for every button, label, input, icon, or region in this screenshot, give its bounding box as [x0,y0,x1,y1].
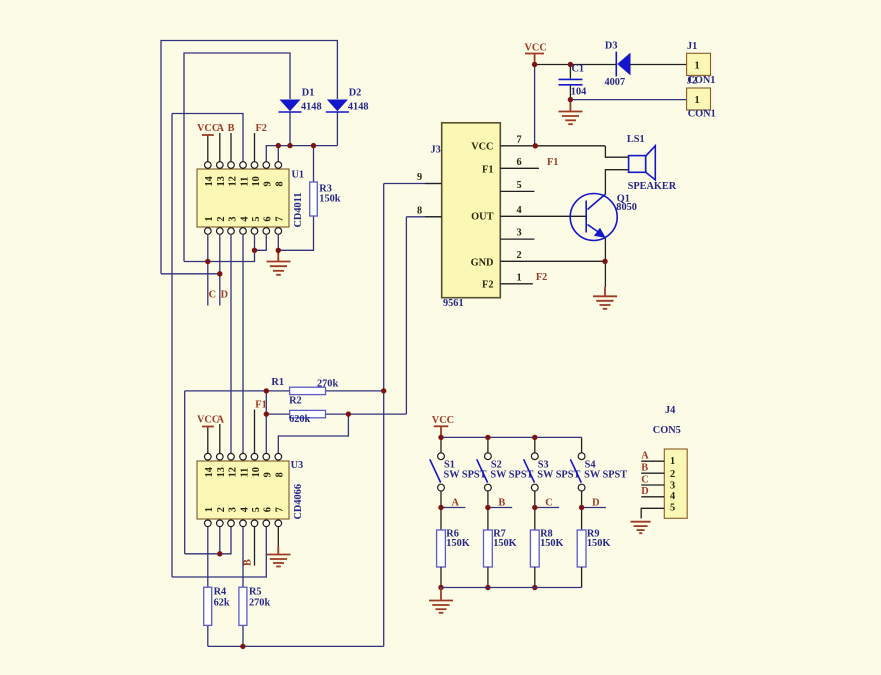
svg-text:150K: 150K [493,538,516,549]
svg-text:620k: 620k [289,414,310,425]
svg-text:VCC: VCC [525,43,547,54]
svg-text:3: 3 [227,216,238,221]
svg-text:VCC: VCC [432,415,454,426]
svg-text:D3: D3 [605,41,618,52]
svg-text:7: 7 [517,134,522,145]
svg-text:7: 7 [275,216,286,221]
svg-text:4007: 4007 [605,77,626,88]
svg-text:D2: D2 [349,88,362,99]
svg-text:150K: 150K [540,538,563,549]
svg-text:B: B [641,463,648,474]
svg-text:12: 12 [227,467,238,477]
svg-text:3: 3 [670,480,675,491]
svg-text:2: 2 [216,507,227,512]
svg-text:8: 8 [275,472,286,477]
svg-text:J4: J4 [665,405,675,416]
svg-text:10: 10 [251,467,262,477]
svg-text:D1: D1 [302,88,315,99]
svg-text:A: A [641,450,649,461]
svg-text:6: 6 [517,157,522,168]
svg-text:J2: J2 [687,76,697,87]
svg-text:8050: 8050 [616,202,637,213]
svg-text:SW SPST: SW SPST [490,470,533,481]
svg-text:14: 14 [204,176,215,186]
svg-text:2: 2 [216,216,227,221]
svg-text:C: C [641,474,648,485]
svg-text:R2: R2 [289,396,302,407]
svg-text:C: C [209,290,216,301]
svg-text:U1: U1 [292,170,305,181]
svg-text:R4: R4 [214,587,227,598]
svg-text:9: 9 [263,472,274,477]
svg-text:1: 1 [204,507,215,512]
svg-text:270k: 270k [317,379,338,390]
svg-text:A: A [217,414,225,425]
svg-text:6: 6 [263,507,274,512]
svg-text:J3: J3 [431,145,441,156]
svg-text:1: 1 [695,60,700,71]
svg-text:3: 3 [227,507,238,512]
svg-text:F1: F1 [482,164,493,175]
svg-text:9: 9 [263,181,274,186]
svg-text:10: 10 [251,176,262,186]
svg-text:1: 1 [517,272,522,283]
svg-text:A: A [452,498,460,509]
svg-text:B: B [228,123,235,134]
svg-text:8: 8 [417,205,422,216]
svg-text:9561: 9561 [443,298,464,309]
svg-text:B: B [243,559,254,566]
svg-text:SPEAKER: SPEAKER [628,181,677,192]
svg-text:2: 2 [670,469,675,480]
svg-text:9: 9 [417,172,422,183]
svg-text:62k: 62k [214,597,230,608]
svg-text:8: 8 [275,181,286,186]
svg-text:4148: 4148 [301,101,322,112]
svg-text:12: 12 [227,176,238,186]
svg-text:5: 5 [251,507,262,512]
svg-text:270k: 270k [249,597,270,608]
svg-text:D: D [641,486,648,497]
svg-text:4: 4 [239,216,250,221]
svg-text:7: 7 [275,507,286,512]
svg-text:C: C [545,498,552,509]
svg-text:R5: R5 [249,587,262,598]
svg-text:3: 3 [517,228,522,239]
svg-text:D: D [221,290,228,301]
svg-text:5: 5 [670,503,675,514]
svg-text:LS1: LS1 [627,134,645,145]
svg-text:F1: F1 [255,399,266,410]
svg-text:13: 13 [216,176,227,186]
svg-text:D: D [592,498,599,509]
svg-text:1: 1 [695,95,700,106]
svg-text:C1: C1 [572,64,585,75]
svg-text:CD4066: CD4066 [293,484,304,519]
svg-text:150K: 150K [446,538,469,549]
svg-text:OUT: OUT [471,211,493,222]
svg-text:VCC: VCC [471,142,493,153]
svg-text:1: 1 [204,216,215,221]
svg-text:F2: F2 [536,272,547,283]
svg-text:R1: R1 [271,377,284,388]
svg-text:2: 2 [517,250,522,261]
svg-text:4: 4 [517,205,522,216]
svg-text:CD4011: CD4011 [293,193,304,228]
svg-text:4: 4 [239,507,250,512]
svg-text:13: 13 [216,467,227,477]
svg-text:J1: J1 [687,41,697,52]
svg-text:SW SPST: SW SPST [537,470,580,481]
svg-text:4: 4 [670,491,675,502]
svg-text:SW SPST: SW SPST [584,470,627,481]
svg-text:4148: 4148 [348,101,369,112]
svg-text:5: 5 [251,216,262,221]
svg-text:6: 6 [263,216,274,221]
svg-text:11: 11 [239,468,250,478]
svg-text:F1: F1 [547,157,558,168]
svg-text:150k: 150k [319,194,340,205]
svg-text:14: 14 [204,467,215,477]
svg-text:B: B [498,498,505,509]
svg-text:5: 5 [517,180,522,191]
svg-text:F2: F2 [482,280,493,291]
svg-text:CON1: CON1 [688,109,716,120]
svg-text:CON5: CON5 [653,425,681,436]
svg-text:GND: GND [471,258,494,269]
svg-text:104: 104 [571,86,586,97]
svg-text:1: 1 [670,456,675,467]
svg-text:A: A [217,123,225,134]
svg-text:11: 11 [239,177,250,187]
svg-text:U3: U3 [291,460,304,471]
svg-text:F2: F2 [256,123,267,134]
svg-text:150K: 150K [587,538,610,549]
svg-text:SW SPST: SW SPST [444,470,487,481]
